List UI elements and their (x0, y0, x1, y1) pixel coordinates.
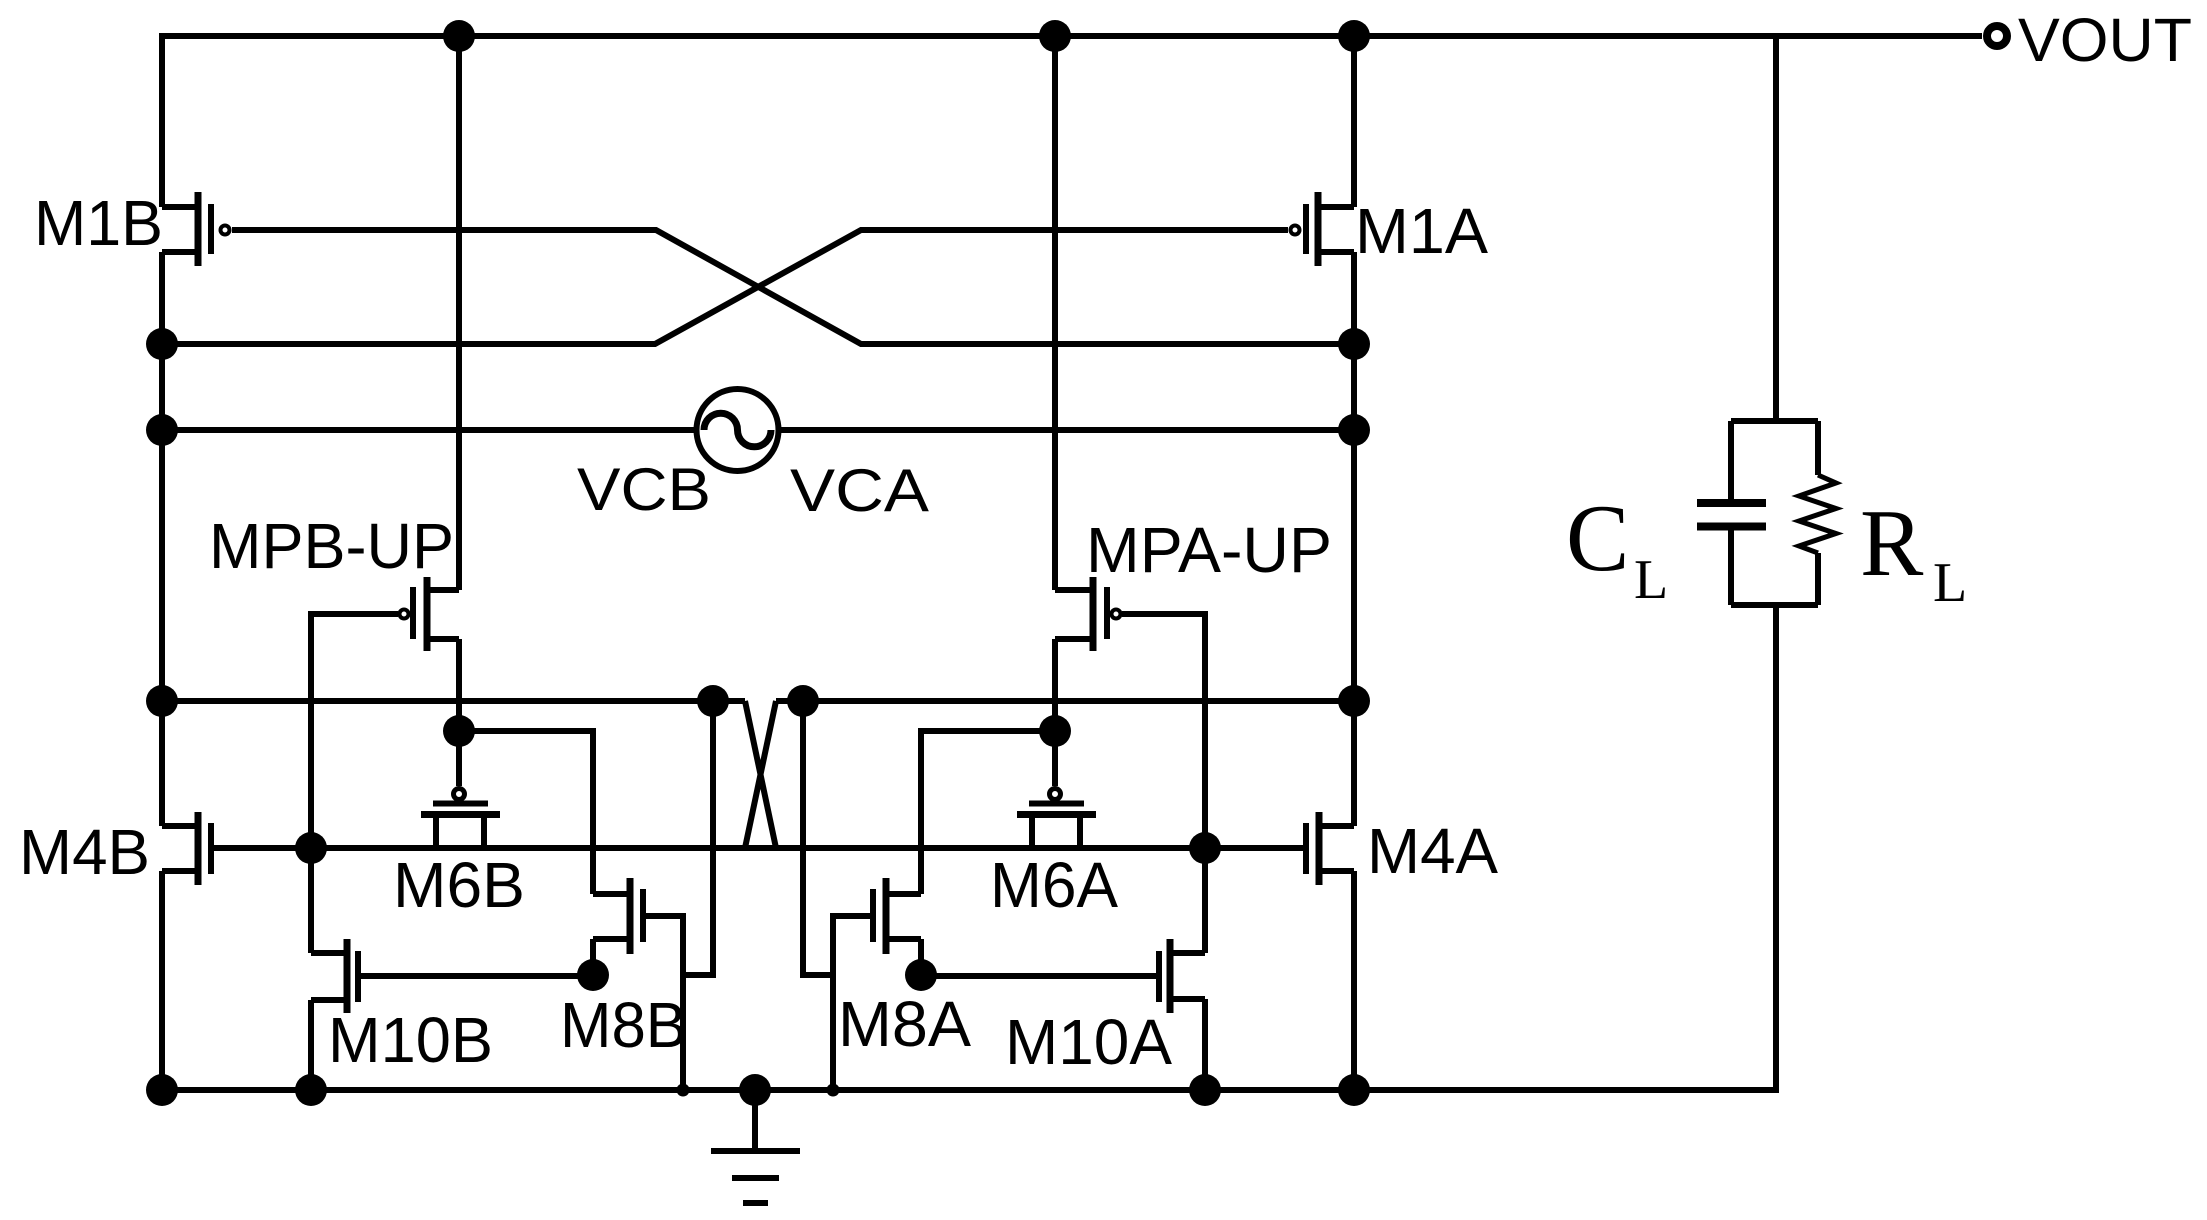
svg-text:M4B: M4B (19, 816, 150, 888)
transistor M4B (162, 812, 211, 885)
wire top rail and left rail upper segment (162, 36, 1982, 207)
svg-text:M8A: M8A (838, 988, 971, 1060)
node bottom rail right (1338, 1074, 1370, 1106)
wire MPB-UP drain down to M6B bubble (456, 639, 462, 786)
wire VDD drop to MPA-UP source (1052, 36, 1058, 590)
node bottom rail left (146, 1074, 178, 1106)
svg-text:L: L (1933, 552, 1967, 614)
wire lower crossover diagonal right-to-left (745, 701, 776, 848)
svg-text:VCA: VCA (790, 457, 929, 524)
svg-text:M6A: M6A (990, 849, 1118, 921)
wire lower crossover diagonal left-to-right (745, 701, 776, 848)
wire right rail middle segment (1351, 252, 1357, 826)
wire M8B source down to node 975 (590, 939, 596, 975)
svg-text:VCB: VCB (577, 456, 711, 523)
svg-text:MPB-UP: MPB-UP (209, 510, 454, 582)
transistor M8B (593, 878, 643, 954)
wire node 713 down to M8B gate column (683, 701, 713, 975)
node row 975 A (905, 959, 937, 991)
wire branch node B to M8B drain (459, 731, 593, 894)
wire MPB-UP gate down to row 848 and M10B drain (311, 614, 398, 953)
transistor M10B (311, 939, 358, 1013)
transistor M10A (1159, 939, 1205, 1013)
transistor M6B (421, 789, 500, 849)
capacitor CL (1697, 421, 1766, 605)
node right rail 344 (1338, 328, 1370, 360)
wire row 701 right segment (776, 698, 1354, 704)
svg-text:M8B: M8B (560, 989, 687, 1061)
transistor MPB-UP (400, 577, 460, 651)
wire gate row 848 (211, 845, 1306, 851)
wire VC row left segment (162, 427, 697, 433)
wire MPA-UP drain down to M6A bubble (1052, 639, 1058, 786)
node row 701 A (787, 685, 819, 717)
node left rail 344 (146, 328, 178, 360)
wire left rail middle segment (159, 252, 165, 826)
wire branch node A to M8A drain (921, 731, 1055, 894)
svg-text:R: R (1860, 490, 1924, 596)
node top rail A (1039, 20, 1071, 52)
svg-text:M10B: M10B (328, 1004, 493, 1076)
node row 848 B (295, 832, 327, 864)
svg-text:VOUT: VOUT (2018, 6, 2192, 74)
wire VDD drop to MPB-UP source (456, 36, 462, 590)
wire M10B gate row to node 975 (361, 973, 593, 979)
node left rail 701 (146, 685, 178, 717)
node bottom rail M10A (1189, 1074, 1221, 1106)
svg-text:M1A: M1A (1355, 195, 1488, 267)
node right rail 430 (1338, 414, 1370, 446)
node row 975 B (577, 959, 609, 991)
svg-text:C: C (1566, 485, 1629, 591)
node right rail 701 (1338, 685, 1370, 717)
wire M1A gate crossover from left rail node (162, 230, 1288, 344)
wire MPA-UP gate down to row 848 and M10A drain (1122, 614, 1205, 953)
svg-text:M4A: M4A (1367, 815, 1498, 887)
wire row 701 left segment (162, 698, 745, 704)
wire M8B gate to ground rail (646, 916, 683, 1090)
node row 848 A (1189, 832, 1221, 864)
terminal VOUT (1987, 26, 2007, 46)
wire right rail upper segment (1351, 36, 1357, 207)
svg-text:M1B: M1B (34, 187, 163, 259)
transistor M6A (1017, 789, 1096, 849)
wire M10A gate row to node 975 (921, 973, 1156, 979)
wire M8A gate to ground rail (833, 916, 870, 1090)
transistor M4A (1306, 812, 1354, 885)
transistor M1A (1291, 192, 1355, 266)
source VCB/VCA (AC symbol) (697, 389, 779, 471)
svg-text:M6B: M6B (393, 849, 525, 921)
node B drain branch (443, 715, 475, 747)
node bottom rail M10B (295, 1074, 327, 1106)
wire load box top (1731, 418, 1818, 424)
svg-text:L: L (1634, 549, 1668, 611)
ground (711, 1090, 800, 1203)
wire load top riser (1773, 36, 1779, 421)
transistor M8A (873, 878, 921, 954)
wire M10B source to bottom rail (308, 1000, 314, 1090)
node bottom rail ground (739, 1074, 771, 1106)
wire VC row right segment (778, 427, 1354, 433)
wire M10A source to bottom rail (1202, 999, 1208, 1090)
wire right rail lower segment (1351, 871, 1357, 1090)
resistor RL (1799, 421, 1836, 605)
node A drain branch (1039, 715, 1071, 747)
wire load box bottom (1731, 602, 1818, 608)
wire M8A source down to node 975 (918, 939, 924, 975)
wire left rail lower segment + bottom rail + load bottom riser (162, 605, 1776, 1090)
node row 701 B (697, 685, 729, 717)
node top rail right (1338, 20, 1370, 52)
node bottom rail M8B gate (677, 1084, 690, 1097)
node top rail B (443, 20, 475, 52)
node left rail 430 (146, 414, 178, 446)
wire M1B gate crossover to right rail node (232, 230, 1354, 344)
svg-text:MPA-UP: MPA-UP (1086, 514, 1332, 586)
wire node 803 down to M8A gate column (803, 701, 833, 975)
node bottom rail M8A gate (827, 1084, 840, 1097)
svg-text:M10A: M10A (1005, 1006, 1172, 1078)
transistor M1B (162, 192, 230, 266)
transistor MPA-UP (1055, 577, 1121, 651)
